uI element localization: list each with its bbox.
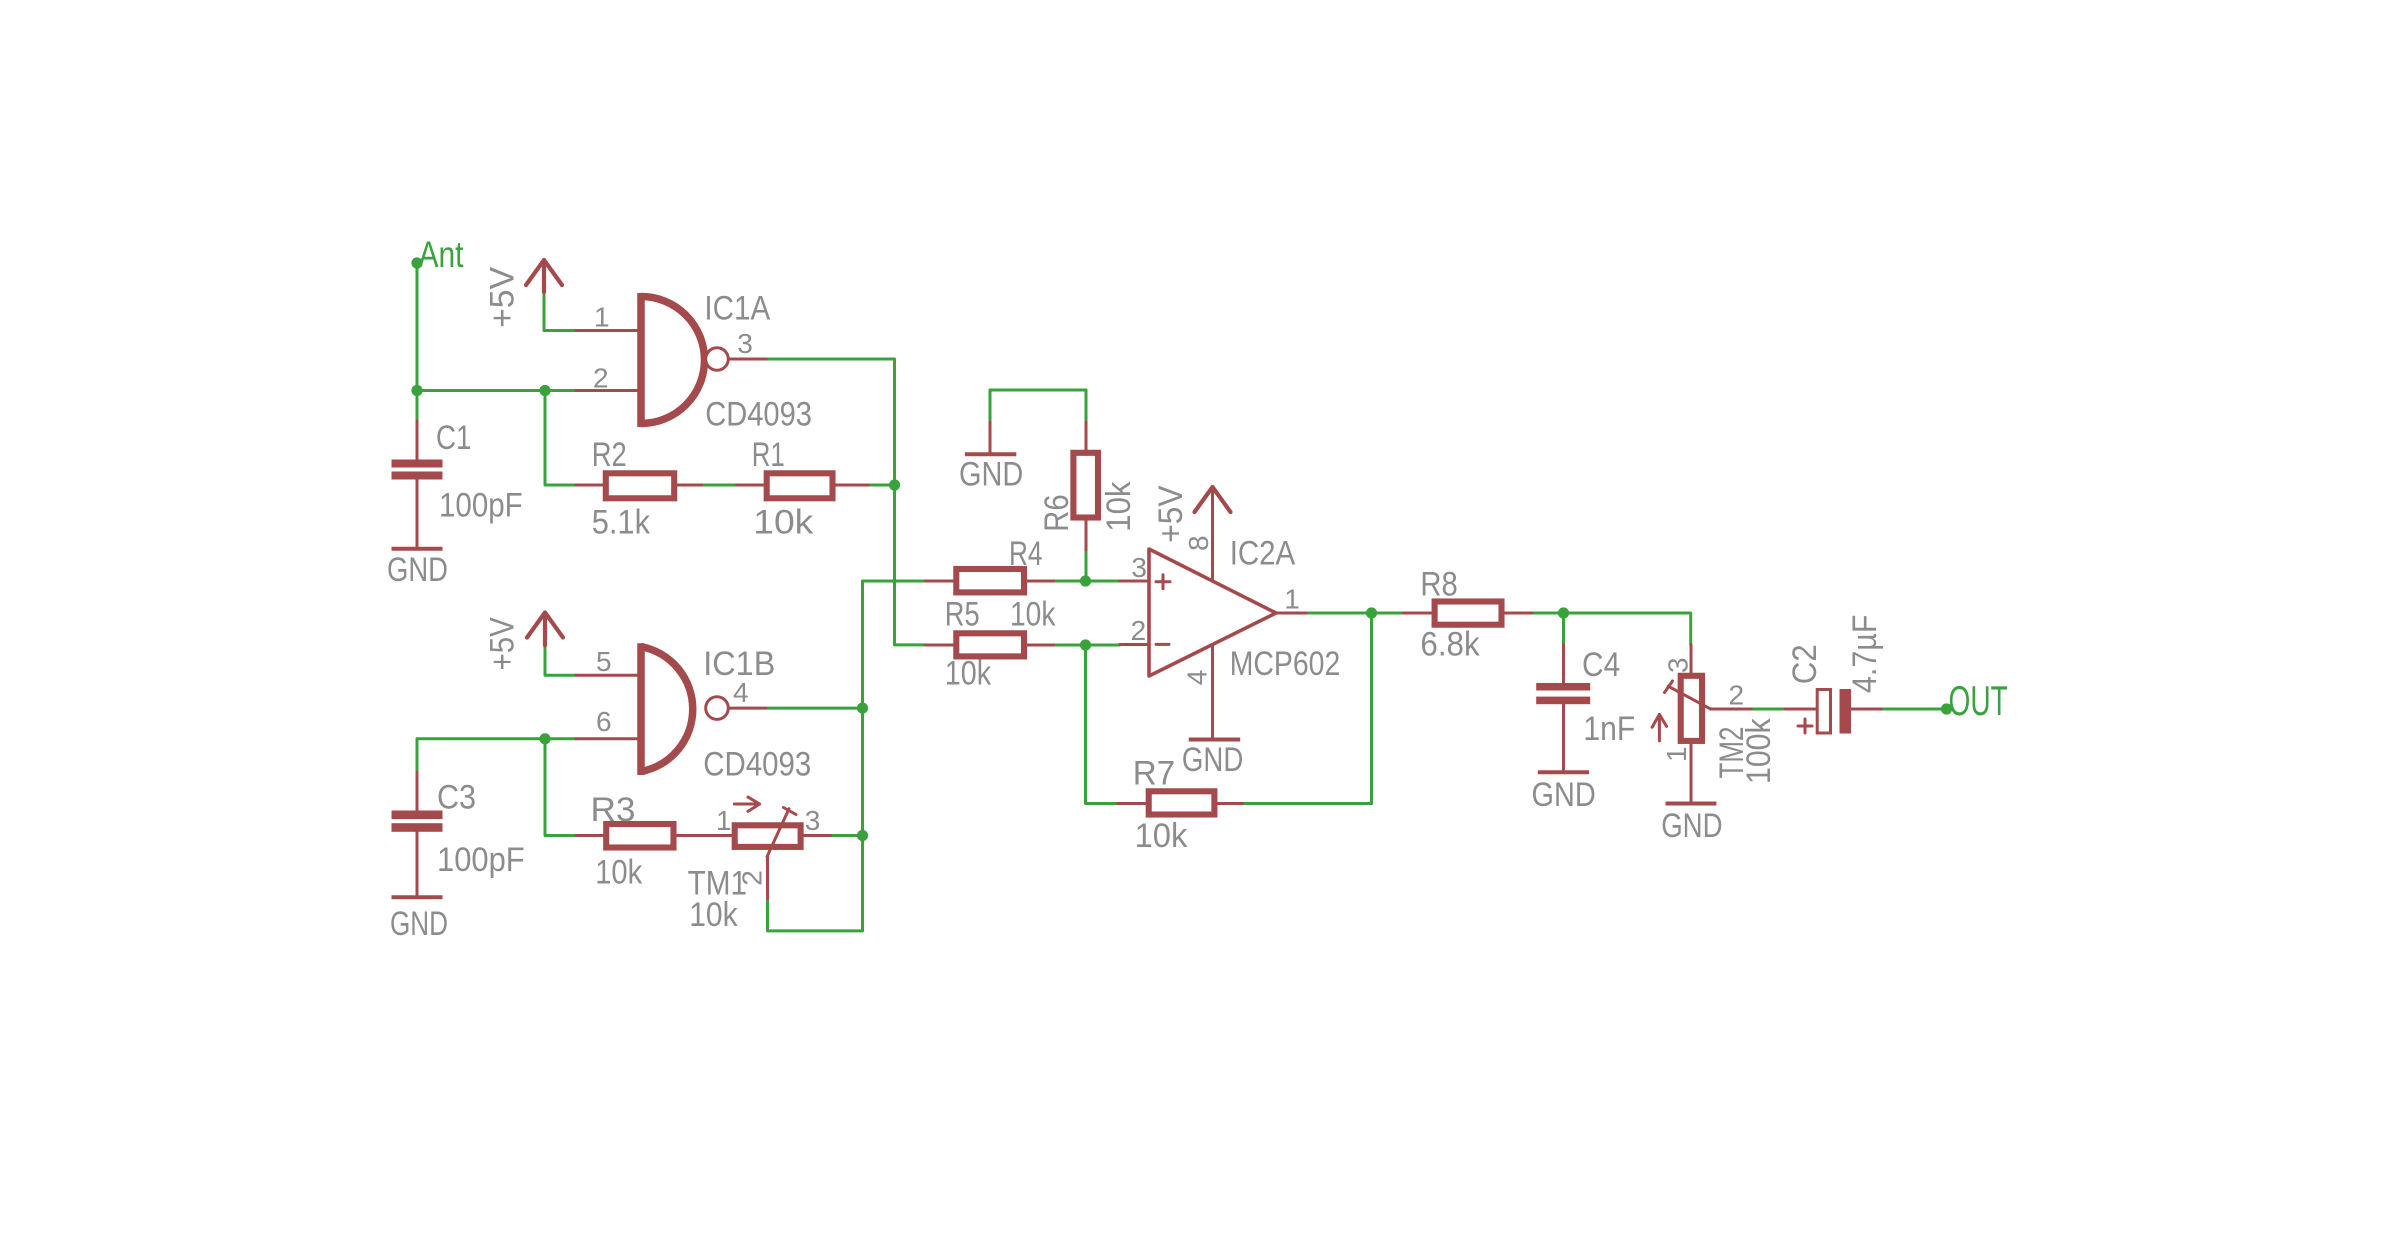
svg-text:8: 8 xyxy=(1183,535,1214,551)
svg-text:2: 2 xyxy=(1131,615,1147,646)
svg-text:6.8k: 6.8k xyxy=(1420,626,1480,664)
svg-text:4.7µF: 4.7µF xyxy=(1846,615,1884,694)
svg-text:10k: 10k xyxy=(1135,817,1189,855)
svg-text:R5: R5 xyxy=(945,596,980,634)
svg-text:GND: GND xyxy=(1532,776,1596,814)
svg-text:CD4093: CD4093 xyxy=(703,745,811,783)
svg-text:R4: R4 xyxy=(1009,535,1043,573)
svg-text:R3: R3 xyxy=(591,791,636,829)
svg-text:3: 3 xyxy=(1131,552,1147,583)
svg-text:4: 4 xyxy=(1182,670,1213,686)
svg-text:10k: 10k xyxy=(1010,596,1056,634)
svg-text:+5V: +5V xyxy=(483,267,521,328)
svg-text:IC1A: IC1A xyxy=(704,289,770,327)
svg-text:C3: C3 xyxy=(437,778,476,816)
svg-text:3: 3 xyxy=(737,328,753,359)
svg-text:2: 2 xyxy=(737,870,768,886)
svg-text:6: 6 xyxy=(596,706,612,737)
svg-text:2: 2 xyxy=(593,362,609,393)
svg-text:R1: R1 xyxy=(752,436,785,474)
svg-text:+5V: +5V xyxy=(1152,485,1190,543)
svg-text:C2: C2 xyxy=(1786,644,1824,684)
svg-text:100k: 100k xyxy=(1740,718,1778,784)
svg-text:10k: 10k xyxy=(595,854,643,892)
svg-text:GND: GND xyxy=(1182,741,1243,779)
svg-text:4: 4 xyxy=(733,677,749,708)
svg-text:+5V: +5V xyxy=(484,617,522,671)
svg-text:GND: GND xyxy=(387,551,448,589)
svg-text:R8: R8 xyxy=(1420,566,1457,604)
svg-text:OUT: OUT xyxy=(1949,677,2008,724)
svg-text:GND: GND xyxy=(959,455,1023,493)
svg-text:5: 5 xyxy=(596,646,612,677)
svg-text:2: 2 xyxy=(1729,680,1745,711)
svg-text:Ant: Ant xyxy=(419,234,465,275)
svg-text:1: 1 xyxy=(1661,746,1692,762)
svg-text:GND: GND xyxy=(390,905,448,943)
svg-text:R2: R2 xyxy=(592,436,627,474)
svg-text:3: 3 xyxy=(805,805,821,836)
svg-text:GND: GND xyxy=(1661,807,1722,845)
svg-text:100pF: 100pF xyxy=(439,487,523,525)
svg-text:C1: C1 xyxy=(436,419,471,457)
svg-text:R7: R7 xyxy=(1133,755,1175,793)
svg-text:10k: 10k xyxy=(689,896,738,934)
svg-text:10k: 10k xyxy=(753,503,814,541)
svg-text:R6: R6 xyxy=(1038,494,1076,531)
svg-text:IC2A: IC2A xyxy=(1230,535,1296,573)
svg-text:MCP602: MCP602 xyxy=(1230,645,1341,683)
svg-text:10k: 10k xyxy=(1100,481,1138,532)
svg-text:1: 1 xyxy=(1284,583,1300,614)
svg-text:3: 3 xyxy=(1663,657,1694,673)
svg-text:1: 1 xyxy=(716,805,732,836)
svg-text:100pF: 100pF xyxy=(437,841,525,879)
svg-text:1: 1 xyxy=(594,301,610,332)
svg-text:CD4093: CD4093 xyxy=(705,395,812,433)
svg-text:5.1k: 5.1k xyxy=(592,503,651,541)
svg-text:C4: C4 xyxy=(1582,646,1620,684)
svg-text:10k: 10k xyxy=(945,655,992,693)
svg-text:1nF: 1nF xyxy=(1583,710,1635,748)
